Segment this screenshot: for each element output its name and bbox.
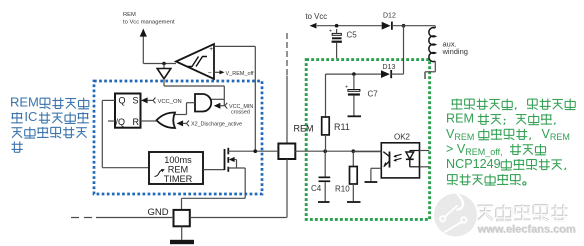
svg-text:VREM: VREM [542, 127, 570, 142]
svg-text:REM: REM [10, 94, 39, 109]
svg-text:V_REM_off: V_REM_off [226, 71, 254, 77]
svg-text:VREM: VREM [446, 127, 474, 142]
svg-text:winding: winding [442, 47, 468, 56]
svg-text:REM: REM [294, 124, 314, 134]
svg-text:R11: R11 [334, 122, 350, 132]
svg-text:> VREM_off,: > VREM_off, [446, 142, 503, 157]
svg-text:+: + [329, 29, 332, 35]
svg-text:C5: C5 [347, 31, 358, 40]
svg-text:VCC_ON: VCC_ON [158, 99, 182, 105]
svg-text:−: − [208, 70, 212, 77]
svg-text:Q: Q [119, 96, 126, 106]
svg-text:GND: GND [148, 207, 169, 218]
svg-text:D13: D13 [383, 64, 396, 71]
svg-text:to Vcc management: to Vcc management [123, 19, 175, 25]
svg-text:S: S [133, 96, 139, 106]
svg-text:C4: C4 [311, 184, 322, 193]
svg-text:R10: R10 [335, 185, 350, 194]
svg-text:C7: C7 [368, 90, 379, 99]
svg-text:TIMER: TIMER [164, 174, 193, 184]
svg-text:IC: IC [24, 109, 37, 124]
svg-text:/Q: /Q [116, 117, 126, 127]
svg-text:D12: D12 [383, 13, 396, 20]
svg-text:X2_Discharge_active: X2_Discharge_active [191, 122, 242, 128]
svg-text:OK2: OK2 [394, 133, 411, 142]
svg-text:www.elecfans.com: www.elecfans.com [477, 223, 576, 235]
svg-text:to Vcc: to Vcc [306, 12, 328, 21]
svg-text:+: + [345, 85, 348, 91]
svg-text:R: R [133, 117, 140, 127]
svg-text:NCP1249: NCP1249 [446, 157, 501, 171]
svg-text:crossed: crossed [231, 109, 250, 115]
svg-text:REM: REM [123, 12, 136, 18]
svg-text:REM: REM [446, 112, 474, 126]
svg-text:+: + [209, 46, 213, 53]
